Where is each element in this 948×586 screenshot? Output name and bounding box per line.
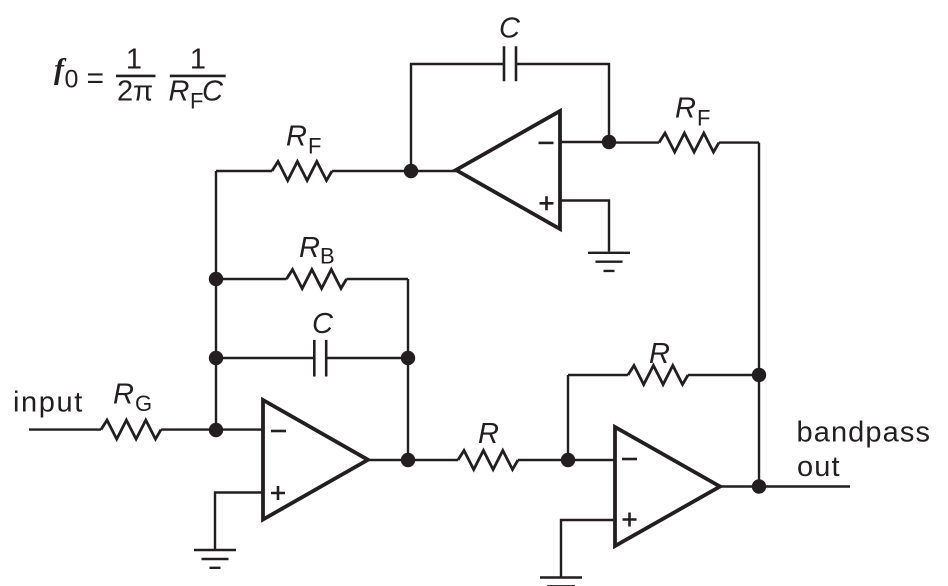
node input summing junction — [209, 423, 223, 437]
wire R feedback leads — [568, 374, 759, 376]
resistor R (between U2 and U3) — [458, 451, 518, 470]
svg-text:input: input — [13, 387, 84, 419]
wire right vertical (RB / C / U2 output) — [407, 279, 409, 460]
svg-text:R: R — [675, 93, 696, 125]
node C left junction — [209, 351, 223, 365]
wire top feedback loop (U1 output to C and minus node) — [411, 63, 609, 171]
svg-text:R: R — [286, 120, 307, 152]
svg-text:out: out — [797, 451, 841, 483]
node U1 output junction — [404, 164, 418, 178]
wire U1 output — [411, 170, 456, 172]
svg-text:B: B — [320, 244, 335, 269]
ground (U3 non-inverting input) — [540, 578, 582, 586]
wire U1 non-inverting input to ground — [560, 201, 609, 252]
wire U3 feedback vertical — [567, 375, 569, 460]
resistor RB — [287, 270, 347, 289]
wire left vertical bus — [215, 171, 217, 430]
wire U1 inverting input — [560, 141, 609, 143]
resistor RF (to U1 summing node) — [272, 162, 332, 181]
resistor R (U3 feedback) — [628, 366, 688, 385]
wire C (middle) leads — [216, 357, 408, 359]
wire RB leads — [216, 278, 408, 280]
wire right vertical bus — [758, 143, 760, 487]
svg-text:C: C — [312, 308, 334, 340]
op-amp U3 (bottom right, pointing right) — [615, 427, 720, 546]
formula f0 = 1/(2 pi) x 1/(RF C) — [54, 44, 226, 114]
wire input lead and U2 inverting input — [29, 428, 263, 430]
svg-text:0: 0 — [65, 66, 79, 94]
svg-text:F: F — [308, 134, 321, 159]
ground (U2 non-inverting input) — [194, 550, 236, 568]
op-amp U1 (top, pointing left) — [456, 111, 560, 229]
svg-text:R: R — [299, 232, 320, 264]
capacitor C (middle, across U2) — [314, 340, 326, 377]
svg-text:C: C — [202, 75, 224, 107]
svg-text:=: = — [87, 62, 105, 95]
svg-text:R: R — [169, 76, 190, 108]
resistor RF (top right, from bandpass out) — [659, 133, 719, 152]
wire RF right leads — [609, 141, 759, 143]
svg-text:F: F — [697, 106, 710, 131]
capacitor C (top integrator feedback) — [504, 46, 516, 81]
wire U2 non-inverting input to ground — [215, 493, 263, 550]
wire U2 output — [368, 459, 458, 461]
resistor RG — [101, 420, 161, 439]
op-amp U2 (bottom left, pointing right) — [263, 400, 368, 520]
node C right junction — [401, 351, 415, 365]
svg-text:1: 1 — [126, 44, 142, 76]
node feedback junction — [752, 368, 766, 382]
wire RF upper-left leads — [216, 170, 411, 172]
node bandpass output junction — [752, 479, 766, 493]
svg-text:R: R — [649, 338, 670, 370]
svg-text:R: R — [478, 418, 499, 450]
node U3 inverting input junction — [561, 453, 575, 467]
wire U3 non-inverting input to ground — [561, 520, 615, 578]
node RB left junction — [209, 272, 223, 286]
svg-text:bandpass: bandpass — [797, 416, 932, 448]
node U2 output junction — [401, 453, 415, 467]
svg-text:2π: 2π — [117, 75, 153, 107]
wire R to U3 inverting input — [518, 459, 615, 461]
node U1 inverting input junction — [602, 135, 616, 149]
svg-text:R: R — [113, 379, 134, 411]
svg-text:1: 1 — [190, 44, 206, 76]
ground (U1 non-inverting input) — [588, 253, 630, 271]
svg-text:G: G — [135, 391, 152, 416]
svg-text:C: C — [499, 12, 521, 44]
wire U3 output (bandpass out) — [720, 485, 850, 487]
